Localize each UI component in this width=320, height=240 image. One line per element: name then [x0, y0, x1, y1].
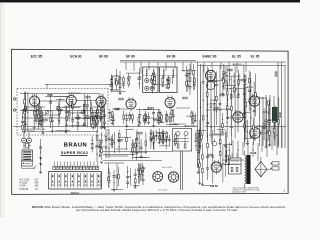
IF transformer T2	[143, 67, 158, 93]
svg-text:29,5c 29,5c: 29,5c 29,5c	[162, 167, 172, 169]
IF section wiring lower	[161, 113, 163, 121]
potentiometer P2 rear view	[168, 172, 178, 182]
tuner section wiring	[22, 112, 24, 133]
coupling transformer symbol	[26, 143, 29, 148]
svg-text:EL 95: EL 95	[251, 54, 260, 58]
top bus vertical stubs	[125, 62, 127, 70]
svg-text:EF 89: EF 89	[126, 54, 135, 58]
tube V9 EL95	[250, 128, 261, 139]
FM/AM tuner dashed enclosure	[17, 88, 108, 90]
tube V2 ECH81	[66, 96, 76, 106]
coupling resistor chain	[189, 64, 191, 95]
scanner top black bar	[0, 0, 300, 2]
right vertical bus wires	[259, 97, 261, 147]
bottom middle wiring	[199, 129, 201, 183]
lower terminal box	[22, 161, 33, 166]
tube V3 EF89	[96, 97, 106, 107]
AF section wiring 2	[268, 105, 270, 141]
driver stage wiring	[226, 66, 228, 86]
svg-text:NOGA: NOGA	[71, 191, 81, 195]
bus wire top B+	[120, 61, 286, 63]
right of logo column	[96, 130, 98, 162]
filter capacitor cans C90 C91	[22, 138, 27, 143]
left of bus wiring	[95, 116, 97, 125]
svg-text:EL 95: EL 95	[232, 54, 241, 58]
svg-text:per riproduzione ad alta fedel: per riproduzione ad alta fedeltà. Media …	[76, 209, 238, 212]
svg-text:Ton Lautst.: Ton Lautst.	[158, 189, 168, 192]
svg-text:EABC 80: EABC 80	[203, 54, 217, 58]
svg-text:K 505: K 505	[20, 186, 27, 188]
electrolytic capacitor (green)	[272, 107, 277, 122]
tube V8 EL95	[233, 112, 243, 122]
AM antenna wire	[45, 83, 112, 85]
svg-text:SUPER RC62: SUPER RC62	[61, 151, 88, 155]
pushbutton switch bank	[48, 171, 101, 189]
potentiometer P1 rear view	[153, 172, 163, 182]
bus wire mid right	[205, 126, 286, 128]
IF section wiring top	[193, 76, 195, 90]
small socket circle	[212, 142, 216, 146]
bus wire mid	[13, 126, 198, 128]
tube V4 EF89	[126, 99, 136, 109]
bus wire lower mid 1	[103, 151, 173, 153]
tube V7 EL95	[249, 96, 259, 106]
svg-text:EF 89: EF 89	[167, 54, 176, 58]
schematic outer frame	[12, 49, 289, 194]
page left edge shading	[0, 0, 5, 217]
IF transformer T1	[113, 76, 121, 90]
svg-text:UKW 88: UKW 88	[20, 189, 29, 191]
switch wire bottom-left	[21, 166, 23, 168]
mid-right lower wiring	[175, 132, 177, 146]
power transformer primary winding	[245, 156, 246, 159]
power transformer core	[247, 155, 251, 184]
svg-text:M 1815: M 1815	[20, 183, 28, 185]
svg-text:BRAUN: BRAUN	[64, 143, 87, 149]
below center wiring	[200, 132, 202, 143]
IF transformer T3	[160, 67, 178, 93]
svg-text:EM 85: EM 85	[210, 184, 218, 188]
right column ties	[275, 72, 277, 76]
antenna input terminals	[13, 98, 15, 100]
horizontal resistors	[48, 94, 52, 96]
cathode row links	[24, 106, 45, 108]
tuner interconnect wires	[20, 93, 100, 95]
fuse holders	[272, 162, 279, 165]
svg-text:ECC 85: ECC 85	[31, 54, 43, 58]
svg-text:K+L 1010: K+L 1010	[20, 180, 31, 182]
bottom mid-left wiring	[108, 163, 110, 188]
wire to capacitor cans	[23, 131, 25, 138]
tube V5 EF89	[165, 98, 175, 108]
tube V1 ECC85	[30, 96, 40, 106]
tuning gang capacitors	[23, 108, 27, 112]
svg-text:Gl. 98: Gl. 98	[250, 152, 257, 155]
svg-text:ECH 81: ECH 81	[70, 54, 82, 58]
bus wire lower mid 3	[103, 154, 135, 156]
tube V6 EABC80	[206, 70, 216, 80]
mid lower wiring	[125, 129, 127, 150]
rectifier bridge	[255, 161, 267, 177]
center lower wiring	[150, 129, 152, 149]
right lower vertical wires	[261, 127, 263, 153]
tube V10 EM85 tuning indicator	[211, 162, 221, 172]
bus wire lower mid 2	[103, 159, 162, 161]
bottom-left extra wires	[108, 168, 110, 188]
center vertical wires	[197, 62, 199, 168]
bleeder diode wire	[40, 139, 42, 172]
bus wire top heater	[198, 65, 286, 67]
AF section wiring	[237, 79, 239, 133]
mains unit box	[229, 158, 242, 174]
multi-section capacitor block	[22, 150, 33, 161]
tone unit box	[173, 129, 192, 152]
svg-text:Netztrafo Gl. 98: Netztrafo Gl. 98	[233, 191, 246, 194]
svg-text:EF 89: EF 89	[99, 54, 108, 58]
soldering tag strip	[53, 166, 56, 169]
